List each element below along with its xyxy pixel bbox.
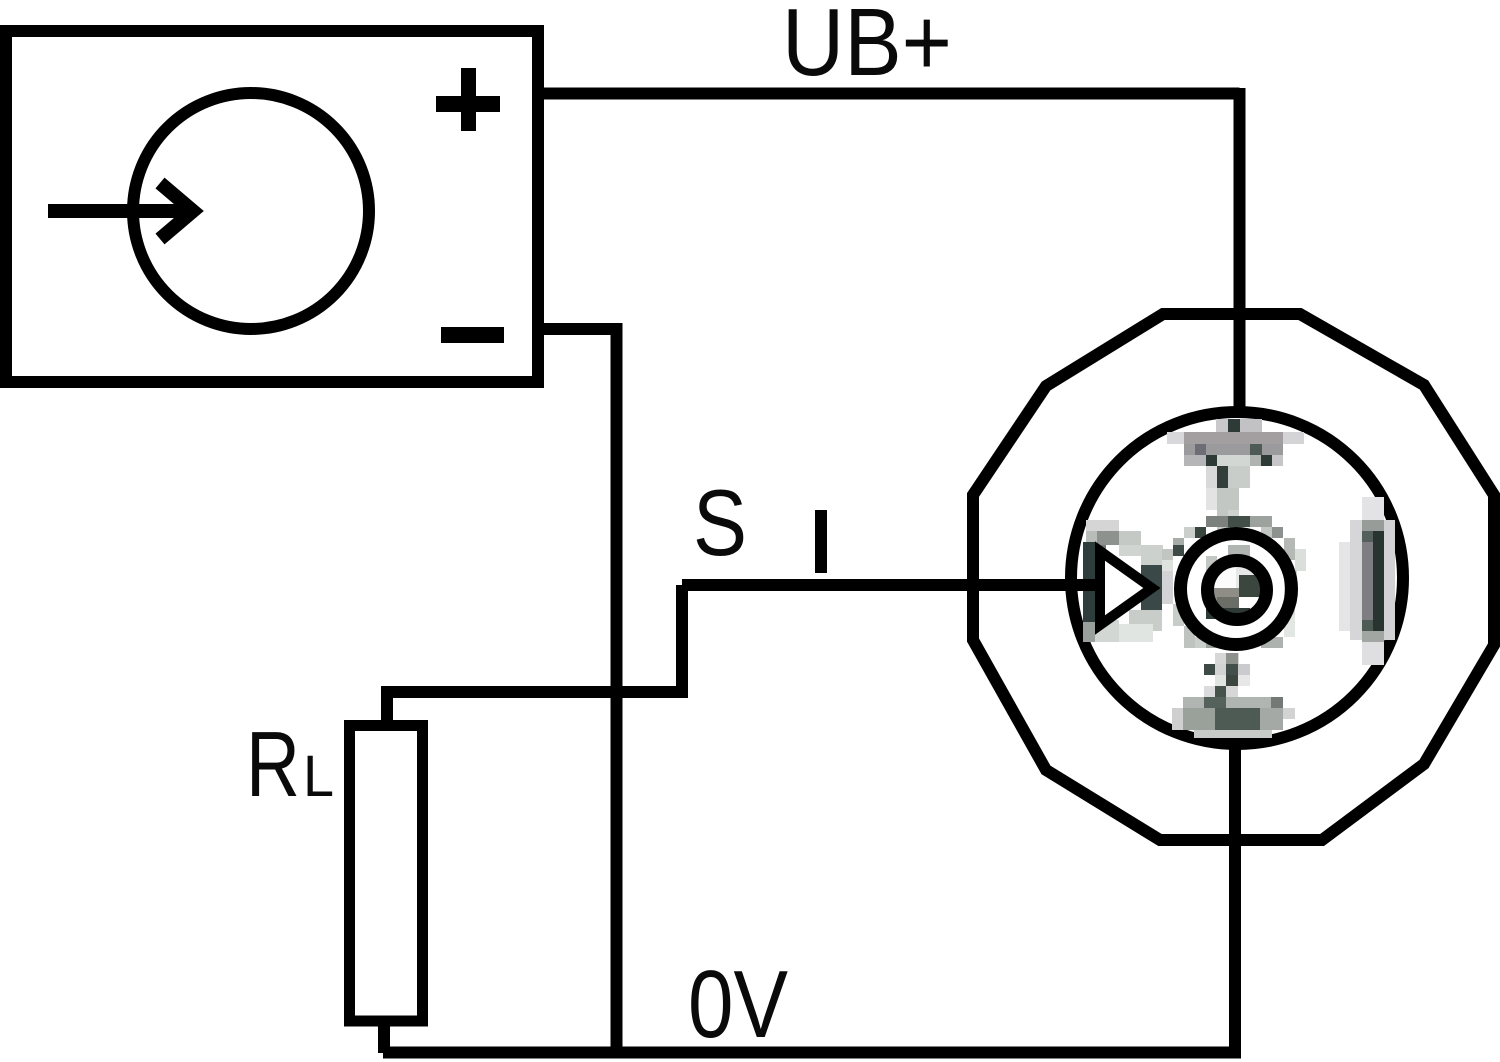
resistor stub bottom — [378, 1021, 390, 1053]
tick I — [815, 510, 827, 573]
wire RL junction — [387, 585, 682, 723]
connector face circle — [1071, 412, 1403, 744]
pin 2 marking bottom — [1172, 653, 1295, 738]
pin 1 marking top — [1167, 419, 1304, 533]
svg-text:0V: 0V — [688, 951, 788, 1058]
inside inner hole — [1213, 566, 1236, 588]
svg-text:R: R — [246, 712, 300, 816]
signal source box U1 — [6, 31, 538, 382]
center pin halo — [1162, 516, 1306, 648]
connector face pixel art — [1083, 419, 1395, 738]
wire connector to 0V vertical — [1229, 740, 1241, 1059]
svg-text:L: L — [303, 744, 334, 809]
connector body dodecagon — [973, 314, 1494, 840]
plus terminal — [436, 68, 500, 131]
svg-text:UB+: UB+ — [782, 0, 952, 96]
pin arrow triangle — [1100, 551, 1152, 625]
wire UB+ vertical into connector — [1234, 88, 1246, 420]
wire UB+ — [538, 88, 1240, 100]
arrow into source — [48, 183, 193, 239]
pin center double circle — [1181, 534, 1292, 645]
resistor RL — [350, 726, 423, 1022]
wire 0V — [383, 1047, 1241, 1059]
svg-text:S: S — [693, 470, 747, 575]
wire S — [682, 579, 1098, 591]
wire minus down — [538, 329, 617, 1053]
triangle pin halo left — [1083, 520, 1173, 642]
source circle — [133, 93, 369, 329]
minus terminal — [441, 327, 504, 343]
bar pin halo right — [1339, 497, 1395, 665]
